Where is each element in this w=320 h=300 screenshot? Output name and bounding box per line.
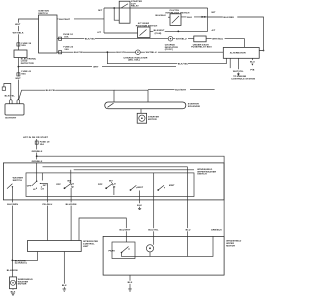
svg-text:INT: INT <box>109 179 113 182</box>
svg-text:BLK/GRN: BLK/GRN <box>7 269 18 272</box>
svg-text:15A: 15A <box>64 35 69 38</box>
node junction dot canada branch <box>12 260 14 262</box>
svg-text:MIST: MIST <box>138 186 144 189</box>
wire branch to wiper motor GRN/BLK <box>37 156 224 236</box>
svg-text:BLU/WHT: BLU/WHT <box>120 229 131 232</box>
svg-text:WHT: WHT <box>15 77 21 80</box>
wire M/T rail <box>104 7 208 9</box>
svg-text:BLK/WHT: BLK/WHT <box>154 29 165 32</box>
fuse 19 10A <box>35 140 50 145</box>
svg-text:RELAY: RELAY <box>131 5 139 8</box>
wire fuse10 row BLK/YEL <box>57 38 168 40</box>
node WHT/BLK label <box>12 31 24 34</box>
svg-text:YEL/BLU: YEL/BLU <box>42 203 52 206</box>
svg-text:M/T: M/T <box>98 9 103 12</box>
svg-text:DETECTOR: DETECTOR <box>21 62 34 65</box>
wire BLU/BLK into clutch switch <box>168 16 170 18</box>
svg-text:M/T: M/T <box>212 11 217 14</box>
wire battery positive cable to starter <box>19 90 114 102</box>
ignition switch SW1 <box>39 15 58 53</box>
node BLU/WHT label <box>119 228 131 232</box>
wire BLU/YEL drop from inner box <box>153 173 155 237</box>
svg-text:BLK/WHT: BLK/WHT <box>59 18 70 21</box>
wire YEL/BLU drop <box>42 173 47 241</box>
node junction dot relay <box>113 7 115 9</box>
wire WHT/BLU fuse box to alternator <box>206 39 244 47</box>
svg-text:50A: 50A <box>21 44 26 47</box>
node junction dot wiper feed <box>36 155 38 157</box>
washer switch arm <box>7 184 13 200</box>
svg-text:INT: INT <box>43 184 47 187</box>
wire WHT/BLU to underdash fuse box <box>173 38 194 40</box>
svg-text:BLK/YEL: BLK/YEL <box>46 89 57 92</box>
fuse 10 15A <box>59 33 74 40</box>
svg-text:PARK: PARK <box>109 249 116 252</box>
node BLK/WHT label <box>175 88 191 92</box>
wire wiper motor internals <box>122 236 214 256</box>
svg-text:SWITCH: SWITCH <box>13 179 23 182</box>
node GRN/BLK label 1 <box>31 149 43 153</box>
svg-text:(CAN): (CAN) <box>155 32 162 35</box>
integrated control unit <box>28 240 99 251</box>
wire arrow to engine controls <box>237 72 239 75</box>
svg-text:BLK/YEL: BLK/YEL <box>116 51 127 54</box>
node BLK label with arrow <box>187 15 206 19</box>
svg-text:CONTROLS SYSTEM: CONTROLS SYSTEM <box>231 78 255 81</box>
svg-text:HI: HI <box>113 185 116 188</box>
svg-text:FUSE/RELAY BOX: FUSE/RELAY BOX <box>191 46 212 49</box>
svg-text:HOT IN ON OR START: HOT IN ON OR START <box>23 136 49 139</box>
svg-text:BLK/WHT: BLK/WHT <box>175 89 186 92</box>
windshield washer motor <box>10 277 34 289</box>
svg-text:MOTOR: MOTOR <box>18 283 27 286</box>
electronic load detector <box>14 50 27 58</box>
svg-text:P/B: P/B <box>250 68 254 71</box>
starter solenoid <box>105 102 201 109</box>
wiper motor park switch sub-box <box>109 242 136 259</box>
starter cut relay <box>119 0 142 23</box>
A/T gear position switch <box>138 27 151 38</box>
svg-text:SWITCH: SWITCH <box>197 173 207 176</box>
svg-text:SOLENOID: SOLENOID <box>188 105 201 108</box>
svg-text:GRN/BLK: GRN/BLK <box>211 229 222 232</box>
svg-text:BLU: BLU <box>186 229 191 232</box>
node BLK/YEL branch label <box>177 62 188 66</box>
wire washer BLK/GRN drop <box>11 200 13 277</box>
svg-text:UNIT: UNIT <box>83 245 89 248</box>
wiper switch cluster 3 <box>98 179 116 195</box>
svg-text:MOTOR: MOTOR <box>148 118 157 121</box>
windshield wiper/washer switch box <box>3 163 224 200</box>
svg-text:10A: 10A <box>40 143 45 146</box>
svg-text:BLK: BLK <box>128 281 133 284</box>
wire BLK ground stub <box>137 191 143 210</box>
svg-text:BLK: BLK <box>187 16 192 19</box>
node YEL/BLU label <box>42 202 54 206</box>
node BLU pin label <box>249 58 255 71</box>
svg-text:BLK: BLK <box>62 284 67 287</box>
svg-text:A/T: A/T <box>212 29 216 32</box>
wire wiper feed into switch <box>36 163 38 181</box>
wire relay coil branch <box>114 8 119 20</box>
svg-text:BLK/YEL: BLK/YEL <box>74 51 85 54</box>
wire alternator pin WHT/YEL down <box>237 58 239 69</box>
svg-text:BLU/GRN: BLU/GRN <box>66 203 77 206</box>
wire ICU ground <box>61 252 67 292</box>
wiper motor M2 <box>146 245 153 252</box>
ignition switch label <box>38 10 49 15</box>
ground strap small box <box>2 87 5 90</box>
node GRN/BLK label <box>211 228 223 232</box>
svg-text:BLK/YEL: BLK/YEL <box>178 63 189 66</box>
wire WHT vertical ELD to battery <box>17 58 19 100</box>
svg-text:WHT: WHT <box>93 66 99 69</box>
svg-text:WHT: WHT <box>15 23 21 26</box>
wire alternator pin WHT down <box>229 58 231 68</box>
wiper switch cluster 5 mist <box>157 184 175 191</box>
svg-text:WHT/BLU: WHT/BLU <box>176 38 187 41</box>
node BLK/WHT ST label <box>59 17 75 21</box>
wire BLK/YEL branch to alternator bottom <box>107 52 226 64</box>
svg-text:OFF: OFF <box>27 185 32 188</box>
svg-text:A/T: A/T <box>97 31 101 34</box>
node junction dot WHT bus <box>18 66 20 68</box>
svg-text:50A: 50A <box>21 73 26 76</box>
wiper switch cluster 2 <box>56 179 74 189</box>
svg-text:BLK/GRN: BLK/GRN <box>7 203 18 206</box>
node WHT bus label <box>92 65 102 69</box>
svg-text:BLK/YEL: BLK/YEL <box>5 95 16 98</box>
node BLK/YEL label row B <box>84 37 95 41</box>
wire BLU/GRN drop <box>70 188 72 241</box>
wire canada branch to ICU <box>12 252 37 261</box>
inner intermittent box <box>26 173 194 197</box>
charge indicator (civic) <box>165 36 178 51</box>
svg-text:(CANADA): (CANADA) <box>15 262 27 265</box>
svg-text:BLK/YEL: BLK/YEL <box>85 38 96 41</box>
windshield wiper/washer switch label <box>197 168 216 176</box>
svg-text:BLK: BLK <box>137 204 142 207</box>
node BLK/RED label <box>223 15 238 19</box>
windshield wiper motor box <box>103 236 242 275</box>
starter motor M1 <box>137 113 159 123</box>
wire WHT bus to right <box>18 66 176 68</box>
wire ICU to wiper motor BLU/WHT <box>79 218 126 242</box>
node WHT/BLU label row C <box>145 50 158 54</box>
svg-text:MOTOR: MOTOR <box>226 244 235 247</box>
node BLK/YEL cable label <box>45 88 56 92</box>
node to engine controls system label <box>231 75 255 80</box>
svg-text:(CIVIC): (CIVIC) <box>165 48 173 51</box>
wire solenoid to starter motor <box>140 109 142 114</box>
A/T gear position switch label <box>136 22 158 27</box>
battery BAT1 <box>5 104 24 115</box>
wire rejoin vertical <box>207 8 209 31</box>
svg-text:GRN/BLK: GRN/BLK <box>32 160 43 163</box>
wiper switch cluster 4 mist <box>130 185 144 191</box>
wire WHT/BLU row C to alternator <box>140 51 223 53</box>
node BLU/YEL label <box>148 228 160 232</box>
wire washer motor ground <box>10 289 16 296</box>
wire fuse24 row BLK/YEL <box>57 51 136 53</box>
svg-text:GRN/BLK: GRN/BLK <box>32 150 43 153</box>
node BLK/YEL label row C1 <box>73 50 84 54</box>
svg-text:(DEL SOL): (DEL SOL) <box>128 59 140 62</box>
svg-text:MIST: MIST <box>169 184 175 187</box>
wire BLK/WHT ST from ignition to fork <box>57 18 104 20</box>
wire wiper motor ground <box>127 275 133 291</box>
wire battery negative hook <box>4 84 11 100</box>
node WHT label <box>15 23 22 27</box>
node junction dot row C <box>107 51 109 53</box>
wire bus intermittent top <box>43 166 188 168</box>
svg-text:WHT/BLU: WHT/BLU <box>212 38 223 41</box>
svg-text:ALTERNATOR: ALTERNATOR <box>230 52 246 55</box>
svg-text:WHT/BLK: WHT/BLK <box>13 32 24 35</box>
svg-text:HI: HI <box>33 188 36 191</box>
fuse 24 15A <box>59 46 74 54</box>
svg-text:BLK: BLK <box>11 290 16 293</box>
wire BLK/WHT to starter solenoid S <box>114 90 148 102</box>
svg-text:OFF: OFF <box>98 183 103 186</box>
wire A/T branch <box>104 32 138 34</box>
clutch interlock switch label <box>166 9 190 14</box>
node BLU/GRN label <box>65 202 77 206</box>
washer switch label <box>13 177 24 182</box>
node junction dot alternator right <box>263 50 265 52</box>
clutch interlock switch <box>170 14 181 26</box>
wire sub-box top edge <box>71 170 194 184</box>
node junction dot A/T line <box>177 31 179 33</box>
svg-text:BLU: BLU <box>250 61 255 64</box>
wire BLK/RED to alternator <box>208 17 264 51</box>
wire BLU drop <box>187 167 189 237</box>
node BLK/WHT (CAN) label <box>153 29 165 35</box>
node BLK/GRN label <box>7 202 19 206</box>
under-dash fuse/relay box <box>191 36 212 49</box>
wire BLK/WHT from A/T switch to rejoin <box>150 30 208 32</box>
node WHT/BLU label <box>175 37 188 41</box>
svg-text:SWITCH: SWITCH <box>38 12 48 15</box>
node BLU label <box>185 228 192 232</box>
node BLK/GRN (CANADA) label <box>15 259 27 264</box>
svg-text:LO: LO <box>41 188 44 191</box>
fuse 39 50A <box>17 42 32 47</box>
svg-text:HI: HI <box>71 185 74 188</box>
wire fork vertical M/T A/T <box>103 8 105 33</box>
fuse 41 50A <box>17 70 32 76</box>
svg-text:BLU/YEL: BLU/YEL <box>148 229 159 232</box>
node GRN/BLK label 2 <box>31 159 43 163</box>
svg-text:15A: 15A <box>64 48 69 51</box>
battery terminals <box>10 100 20 104</box>
wiper switch cluster 1 <box>27 181 48 192</box>
node WHT/BLU label 2 <box>212 37 225 41</box>
wire WHT from ignition switch to left bus <box>18 19 38 50</box>
node WHT label above battery <box>15 76 22 80</box>
svg-text:OFF: OFF <box>56 183 61 186</box>
svg-text:BLK/RED: BLK/RED <box>224 16 235 19</box>
charge indicator (del sol) <box>124 50 148 62</box>
alternator <box>223 48 259 59</box>
svg-text:BATTERY: BATTERY <box>5 116 16 119</box>
svg-text:BLU/BLK: BLU/BLK <box>156 14 167 17</box>
svg-text:WHT/BLU: WHT/BLU <box>146 51 157 54</box>
node BLK/YEL label row C2 <box>116 50 127 54</box>
wire fuse 19 feed <box>36 139 38 163</box>
wire BLK from clutch switch to rejoin <box>181 16 208 18</box>
